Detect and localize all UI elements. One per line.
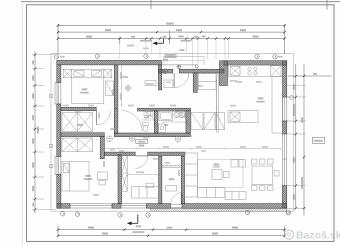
porch column 2 xyxy=(195,65,198,68)
bedroom door leaf xyxy=(96,111,98,125)
hall smudge texts xyxy=(122,76,128,78)
interior wall WC/bath divider xyxy=(154,111,158,134)
bed 2 xyxy=(62,162,89,192)
dim text 900/150 xyxy=(181,40,192,42)
porch entry door swing arc xyxy=(174,73,189,88)
scattered dim smudges xyxy=(63,81,268,196)
svg-text:Bazoš.sk: Bazoš.sk xyxy=(296,230,340,242)
right extension stubs xyxy=(287,97,306,208)
top dim row 2 xyxy=(58,31,285,33)
left dim ticks xyxy=(34,54,36,211)
level mark box xyxy=(313,137,325,143)
armchair 1 xyxy=(231,160,238,168)
dim text 1180 xyxy=(178,36,183,38)
pier top-right (kitchen corner) xyxy=(220,61,228,86)
right extension stub y85.5 xyxy=(287,85,306,87)
living label xyxy=(214,164,220,166)
dining chairs xyxy=(252,159,258,164)
top dim row 1 xyxy=(58,25,285,27)
hall wardrobe top right xyxy=(199,74,217,90)
wardrobe X upper xyxy=(62,113,93,132)
interior wall H-left (closet bottom) xyxy=(61,133,105,137)
exterior wall top-left segment xyxy=(57,60,162,65)
top dim extension x169.5 xyxy=(169,31,171,45)
right connector line xyxy=(288,75,332,77)
entry door threshold xyxy=(171,204,183,207)
left exterior wall middle xyxy=(57,104,61,157)
bath door swing arc xyxy=(173,111,187,125)
pier left of porch xyxy=(158,65,161,90)
bed 1 xyxy=(72,69,104,103)
hall ceiling lamp xyxy=(163,69,168,74)
bottom exterior wall left corner piece xyxy=(57,204,70,209)
nightstand right xyxy=(104,69,112,77)
porch label xyxy=(163,59,168,61)
bath basin 1 xyxy=(174,112,179,117)
top dim extension right xyxy=(284,24,286,54)
hall label box text xyxy=(138,141,145,143)
dim text 950 xyxy=(202,36,206,38)
stove circles xyxy=(248,67,251,70)
room label 1.08 xyxy=(258,97,264,99)
left exterior wall lower xyxy=(57,175,61,209)
island sink X xyxy=(230,112,240,121)
dresser small box xyxy=(146,183,154,187)
smudge near top arrow xyxy=(127,45,134,47)
internal dim line mid xyxy=(103,148,282,150)
top dim ticks row1 xyxy=(57,24,286,26)
porch entry door leaf xyxy=(173,73,175,88)
right dim line inner xyxy=(295,64,297,210)
facade line across porch opening xyxy=(162,64,196,66)
pillow bed2 xyxy=(64,164,70,173)
bottom dim row A xyxy=(58,229,285,231)
interior wall W1 lower part xyxy=(114,108,118,133)
WC basin xyxy=(144,111,151,116)
room label 1.05 xyxy=(82,88,88,90)
downspout circle right xyxy=(290,96,294,100)
H3 door leaf xyxy=(135,155,148,157)
bedroom door swing arc xyxy=(97,111,111,125)
shaft with X bracing xyxy=(122,155,128,191)
dim text 3540 xyxy=(86,36,92,38)
pillow 1 xyxy=(74,71,84,77)
right exterior wall upper xyxy=(282,61,286,97)
grid bubble top A xyxy=(55,54,278,59)
dim text 4050 xyxy=(240,29,246,31)
H3 door swing arc xyxy=(135,156,148,169)
porch label box xyxy=(165,54,176,58)
dresser room rect xyxy=(132,187,159,199)
room label 1.07 xyxy=(169,178,175,180)
bottom dim texts xyxy=(88,227,94,229)
top dim row 3 xyxy=(58,38,285,40)
bottom dim ext right xyxy=(284,226,286,237)
armchair 2 xyxy=(239,160,246,168)
kitchen counter top xyxy=(228,65,282,76)
section arrow top xyxy=(157,38,164,43)
WC door swing arc xyxy=(141,111,156,126)
bath tub xyxy=(159,111,173,121)
downspout circle left 2 xyxy=(49,144,53,148)
internal dim room106 xyxy=(128,171,160,175)
kitchen island xyxy=(228,111,258,123)
sofa L left strip xyxy=(185,153,198,197)
washer circle 2 xyxy=(129,136,135,142)
WC internal dim xyxy=(141,120,186,122)
interior wall H3 right part xyxy=(148,152,185,155)
dim text 2140 xyxy=(176,29,182,31)
porch back wall left xyxy=(158,69,172,73)
top dim extension left xyxy=(57,24,59,54)
bath labels xyxy=(144,117,149,119)
bottom wall window small xyxy=(121,204,147,208)
washer circle 1 xyxy=(107,136,113,142)
washer circle 3 xyxy=(175,136,181,142)
bath extra fixtures xyxy=(147,112,185,133)
entry room left wall xyxy=(159,156,162,203)
top dim ticks row3 xyxy=(57,37,286,39)
downspout circle left 1 xyxy=(49,94,53,98)
section arrow bottom xyxy=(131,215,138,224)
right dim line outer xyxy=(303,64,305,216)
interior wall W4 (bath right) xyxy=(186,111,191,134)
dim text 2390 xyxy=(253,36,259,38)
nightstand left xyxy=(63,69,72,77)
kitchen side counter xyxy=(272,76,282,133)
fold mark top 2 xyxy=(326,0,328,10)
downspout circle left 3 xyxy=(49,164,53,168)
entry room top line xyxy=(162,166,181,167)
dim text 5450 xyxy=(105,29,111,31)
bedroom dresser xyxy=(106,81,114,96)
bath basin 2 xyxy=(179,112,184,117)
entry doormat xyxy=(166,186,177,192)
hall partition double line xyxy=(216,73,218,133)
hall shoe cabinet xyxy=(164,80,173,88)
bottom dim row B xyxy=(58,235,285,237)
dim text 760 xyxy=(131,36,135,38)
exterior wall top-right segment xyxy=(224,61,287,65)
grid bubbles bottom xyxy=(61,210,291,217)
dim text 3900 roof xyxy=(180,49,185,51)
interior wall H1 (bedroom bottom) xyxy=(61,107,96,110)
dim text 900/1500 xyxy=(140,40,152,42)
left dim rotated texts xyxy=(32,60,39,206)
room label 1.06 xyxy=(85,175,91,177)
interior wall H2 (bath block bottom) xyxy=(114,133,190,137)
sheet top edge xyxy=(21,1,340,3)
hall lamp 2 xyxy=(126,86,131,91)
porch column 1 xyxy=(177,65,181,69)
right dim rotated texts xyxy=(293,84,303,199)
right wall terrace glass door xyxy=(282,134,286,186)
porch box text xyxy=(166,55,175,57)
entry room right wall xyxy=(181,156,184,203)
desk room 1.06 xyxy=(98,172,108,180)
bottom wall window (room 1.06) xyxy=(70,204,112,208)
sheet left edge xyxy=(21,2,23,245)
coffee table xyxy=(212,170,222,180)
bottom dim ext left xyxy=(57,226,59,237)
sofa L bottom strip xyxy=(198,188,226,198)
corridor door swing arc xyxy=(122,111,143,132)
level text xyxy=(314,140,323,142)
room label 1.03 xyxy=(139,145,145,147)
left wall window 2 xyxy=(55,157,61,175)
bottom dim ticks xyxy=(57,229,286,237)
grid bubble letters xyxy=(57,56,290,217)
kitchen sink xyxy=(231,66,240,75)
left exterior wall upper xyxy=(57,65,61,83)
right wall window xyxy=(282,97,288,121)
interior wall H1b (bath block top) xyxy=(138,108,191,111)
left dim line xyxy=(34,52,36,214)
top dim extension x120 xyxy=(119,37,121,44)
right dim ticks xyxy=(295,75,306,210)
wardrobe X lower xyxy=(62,138,93,152)
interior wall W1 (bedroom right) xyxy=(114,65,118,107)
dim text 14500 xyxy=(166,23,174,25)
porch slab lines xyxy=(163,56,204,58)
hall cabinet 2 xyxy=(145,81,156,86)
interior wall H3 (living top) left xyxy=(104,152,135,155)
front door leaf xyxy=(181,193,183,204)
bottom wall right long segment xyxy=(182,204,287,209)
right exterior wall lower xyxy=(282,186,286,208)
hall internal dim vertical xyxy=(120,65,123,106)
pillow 2 xyxy=(92,71,102,77)
interior wall W6 (room 1.06 right) xyxy=(118,155,122,204)
front door swing arc xyxy=(171,193,182,204)
rug living xyxy=(198,160,244,188)
top dim ticks row2 xyxy=(57,31,286,33)
WC toilet xyxy=(143,123,149,126)
dim text 900 xyxy=(163,36,167,38)
bubble tail marks xyxy=(60,56,65,58)
fridge X box xyxy=(271,66,282,76)
bottom wall segment at entry left xyxy=(147,204,171,209)
top tick extension verticals xyxy=(120,40,229,68)
sideboard row xyxy=(225,192,246,200)
chair room 1.06 xyxy=(99,181,106,186)
storage cabinets right of bath xyxy=(191,112,203,129)
roof overhang outline xyxy=(51,54,294,212)
interior wall W2 xyxy=(100,137,104,159)
internal dim vertical kitchen xyxy=(216,79,218,130)
bottom wall segment mid xyxy=(112,204,121,209)
dining table xyxy=(252,166,273,185)
hall label box xyxy=(136,139,148,143)
fold mark top 1 xyxy=(150,0,152,9)
right exterior wall mid xyxy=(282,121,286,134)
left wall window 1 xyxy=(55,83,61,105)
left dim extension stubs xyxy=(32,55,57,210)
porch back wall right xyxy=(179,69,224,73)
pier right of porch xyxy=(193,73,197,93)
dim text 450 xyxy=(194,36,198,38)
dim text 600 right xyxy=(313,73,317,75)
terrace edge band xyxy=(151,208,287,211)
watermark logo xyxy=(284,230,340,242)
room label 1.04 xyxy=(77,124,83,126)
